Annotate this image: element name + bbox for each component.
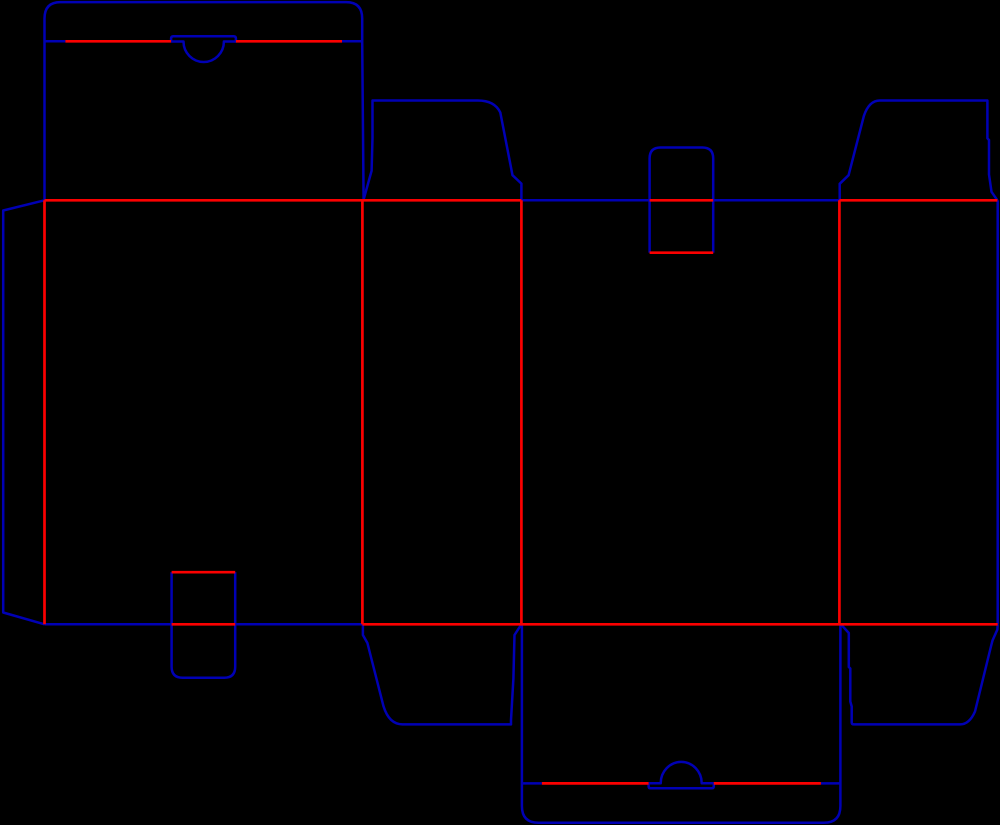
bottom dust flap (panel 4) cut outline: [841, 624, 998, 724]
top tuck lid (panel 1) cut outline: [45, 2, 364, 200]
crease: panel 1 / panel 2 boundary: [361, 200, 364, 624]
crease: top lock tab inner fold: [650, 251, 714, 254]
bottom lid crease left blue end segment: [522, 782, 542, 785]
crease: top lid tuck crease left part: [65, 40, 171, 43]
bottom lock tab (panel 1) lower cut outline: [172, 624, 236, 678]
crease: top fold under lock tab (panel 3): [650, 199, 714, 202]
top lock tab (panel 3) left side cut below fold: [648, 200, 651, 252]
top dust flap (panel 4) cut outline: [840, 101, 998, 201]
top lid thumb-notch tuck tab: [171, 36, 236, 62]
top lid crease right blue end segment: [342, 40, 362, 43]
top lid crease left blue end segment: [45, 40, 66, 43]
crease: top fold under lid and dust flap (panels 1-2): [45, 199, 522, 202]
bottom lid thumb-notch tuck tab: [649, 762, 714, 788]
bottom lock tab (panel 1) right side cut above fold: [234, 572, 237, 624]
crease: bottom lid tuck crease right part: [714, 782, 821, 785]
bottom dust flap (panel 2) cut outline: [363, 624, 522, 724]
right panel edge cut: [996, 200, 999, 624]
top lock tab (panel 3) right side cut below fold: [712, 200, 715, 252]
crease: bottom fold across lock tab (panel 1): [172, 623, 236, 626]
crease: bottom lock tab inner fold: [172, 571, 236, 574]
crease: top lid tuck crease right part: [236, 40, 342, 43]
bottom fold cut segment panel1 right of tab: [235, 623, 362, 626]
top fold cut segment between lock tab and panel 4: [713, 199, 839, 202]
bottom tuck lid (panel 3) cut outline: [522, 624, 841, 823]
bottom fold cut segment panel1 left of tab: [45, 623, 172, 626]
top lock tab (panel 3) upper cut outline: [650, 148, 714, 201]
crease: top fold under dust flap (panel 4): [839, 199, 997, 202]
top dust flap (panel 2) cut outline: [363, 101, 521, 201]
bottom lock tab (panel 1) left side cut above fold: [170, 572, 173, 624]
bottom lid crease right blue end segment: [821, 782, 841, 785]
crease: panel 2 / panel 3 boundary: [520, 200, 523, 624]
crease: bottom fold under panels 2-4: [362, 623, 997, 626]
crease: panel 3 / panel 4 boundary: [838, 200, 841, 624]
crease: glue flap fold (vertical): [43, 200, 46, 624]
glue flap (left) cut outline: [3, 200, 44, 624]
top fold cut segment between panel 3 edge and lock tab: [521, 199, 649, 202]
crease: bottom lid tuck crease left part: [542, 782, 649, 785]
